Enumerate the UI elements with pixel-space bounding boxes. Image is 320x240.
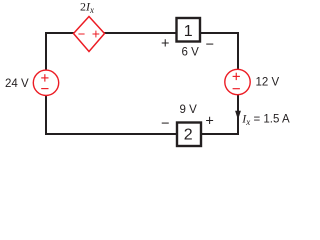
- svg-text:−: −: [161, 116, 169, 132]
- svg-text:Ix = 1.5 A: Ix = 1.5 A: [241, 112, 290, 128]
- svg-text:24 V: 24 V: [5, 78, 29, 90]
- svg-text:9 V: 9 V: [180, 104, 198, 116]
- svg-text:2Ix: 2Ix: [80, 0, 94, 15]
- svg-text:6 V: 6 V: [182, 47, 200, 59]
- svg-text:1: 1: [184, 23, 193, 40]
- svg-text:−: −: [206, 37, 214, 53]
- svg-text:2: 2: [184, 127, 193, 144]
- svg-text:12 V: 12 V: [256, 77, 280, 89]
- svg-text:+: +: [161, 36, 169, 52]
- svg-text:+: +: [205, 114, 213, 130]
